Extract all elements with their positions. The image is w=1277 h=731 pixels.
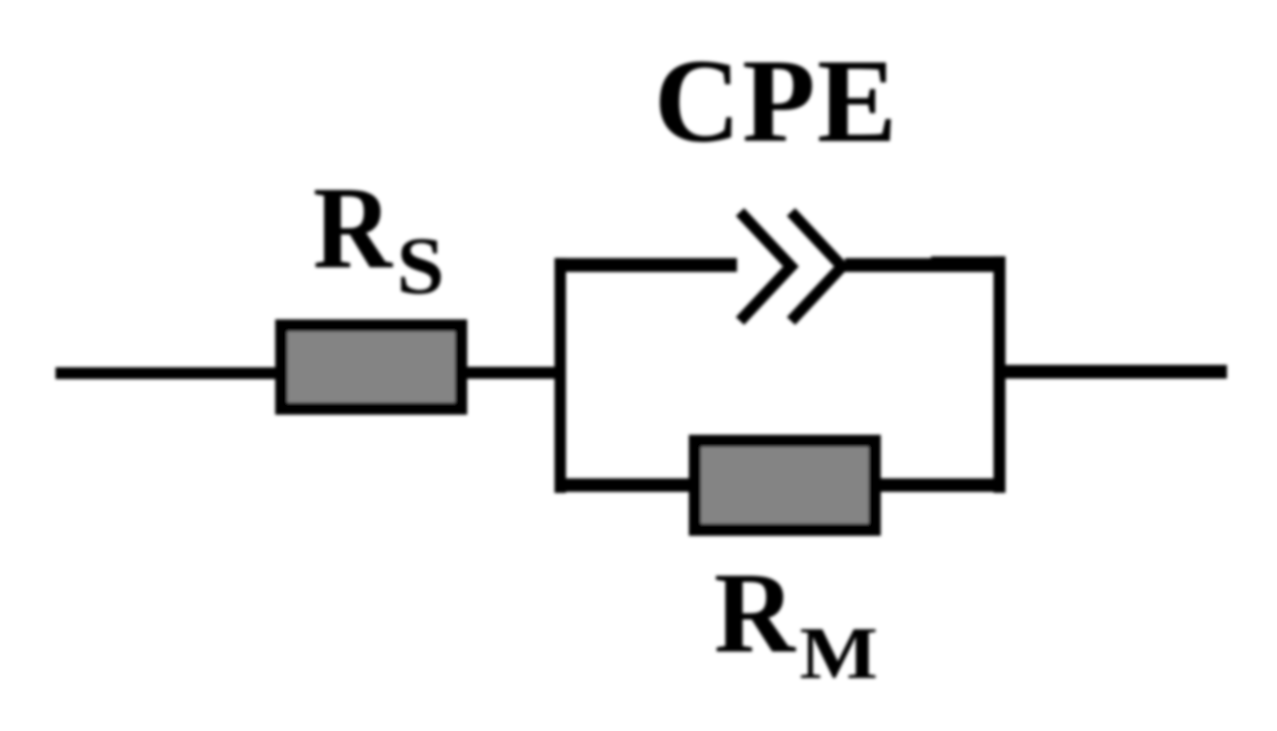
svg-text:S: S bbox=[397, 220, 445, 311]
wire: parallel block right vertical bbox=[994, 256, 1006, 492]
wire: top branch right segment bbox=[845, 258, 999, 272]
wire: left lead bbox=[56, 367, 276, 379]
label RS bbox=[313, 162, 445, 311]
label RM bbox=[714, 550, 878, 696]
wire: bottom branch corner nub bbox=[555, 483, 567, 493]
wire: top branch right offset segment bbox=[931, 256, 1006, 270]
resistor RM bbox=[689, 435, 881, 536]
svg-text:R: R bbox=[313, 162, 394, 293]
wire: bottom branch right segment bbox=[880, 478, 1006, 491]
wire: top branch left segment bbox=[555, 258, 738, 272]
wire: parallel block left vertical bbox=[555, 258, 567, 493]
svg-text:R: R bbox=[714, 550, 797, 677]
wire: RS to parallel block bbox=[465, 367, 561, 379]
wire: bottom branch left segment bbox=[562, 478, 690, 491]
capacitor-like CPE symbol (double chevron) bbox=[740, 212, 842, 321]
svg-text:M: M bbox=[800, 613, 879, 695]
wire: right lead bbox=[1005, 365, 1227, 379]
resistor RS bbox=[275, 319, 467, 414]
svg-text:CPE: CPE bbox=[654, 34, 899, 167]
